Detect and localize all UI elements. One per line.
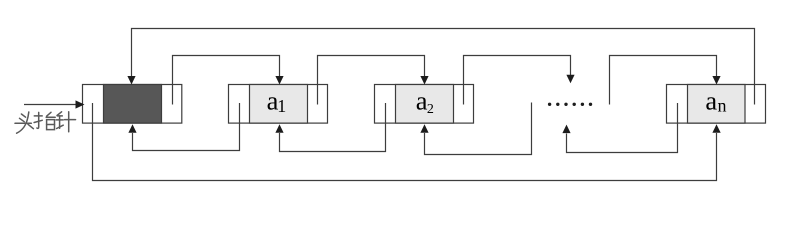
svg-text:a: a [705,86,717,116]
svg-text:2: 2 [427,102,434,117]
svg-text:a: a [416,86,428,116]
svg-text:1: 1 [277,96,286,116]
svg-text:n: n [718,96,727,116]
